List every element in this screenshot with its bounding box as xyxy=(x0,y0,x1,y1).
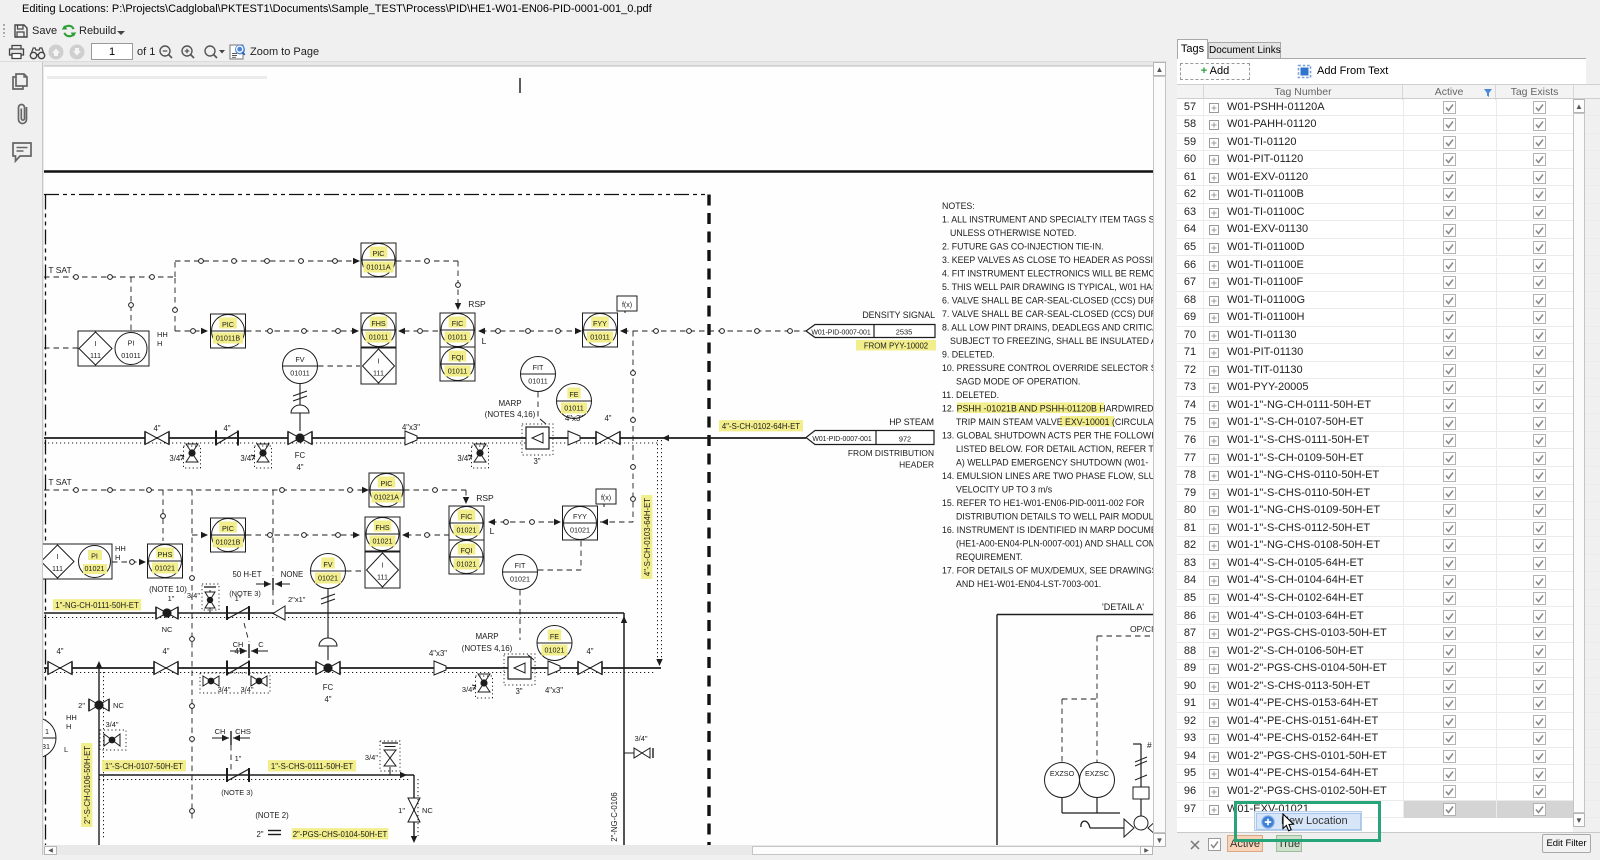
wire FIT-01021 down xyxy=(519,590,521,640)
svg-text:#: # xyxy=(1147,740,1152,750)
find icon (binoculars) xyxy=(29,45,46,60)
horizontal scrollbar of canvas xyxy=(44,846,1153,855)
svg-text:8. ALL LOW PINT DRAINS, DEADLE: 8. ALL LOW PINT DRAINS, DEADLEGS AND CRI… xyxy=(942,323,1153,333)
status bar xyxy=(1177,832,1600,855)
svg-text:FC: FC xyxy=(295,451,306,460)
MARP flow element box xyxy=(522,424,553,466)
svg-text:01021: 01021 xyxy=(457,560,477,569)
svg-text:FIC: FIC xyxy=(452,319,464,328)
svg-text:3": 3" xyxy=(533,457,540,466)
FV-01011 valve stem xyxy=(291,384,309,431)
zoom to page icon xyxy=(229,43,247,61)
svg-text:PHS: PHS xyxy=(158,550,173,559)
svg-text:T SAT: T SAT xyxy=(48,265,71,275)
svg-text:PIC: PIC xyxy=(222,524,234,533)
svg-text:SUBJECT TO FREEZING, SHALL BE: SUBJECT TO FREEZING, SHALL BE INSULATED … xyxy=(950,336,1153,346)
svg-text:2"x1": 2"x1" xyxy=(288,595,306,604)
svg-text:OP/CI: OP/CI xyxy=(1130,624,1153,634)
svg-text:f(x): f(x) xyxy=(601,495,611,502)
svg-text:111: 111 xyxy=(52,564,63,573)
svg-text:01011: 01011 xyxy=(290,369,309,378)
svg-text:PI: PI xyxy=(128,339,135,348)
svg-text:01011: 01011 xyxy=(121,351,140,360)
svg-text:FQI: FQI xyxy=(452,353,464,362)
svg-text:FROM DISTRIBUTION: FROM DISTRIBUTION xyxy=(848,448,934,458)
svg-text:4"-S-CH-0103-64H-ET: 4"-S-CH-0103-64H-ET xyxy=(643,498,652,576)
instrument PIC-01021B xyxy=(211,518,246,552)
svg-text:W01-PID-0007-001: W01-PID-0007-001 xyxy=(812,436,872,443)
svg-text:FHS: FHS xyxy=(375,523,390,532)
svg-text:01021B: 01021B xyxy=(216,538,241,547)
instrument FE-01021 xyxy=(537,626,572,661)
svg-text:NC: NC xyxy=(422,806,433,815)
svg-text:3/4": 3/4" xyxy=(217,685,230,694)
svg-text:2. FUTURE GAS CO-INJECTION TIE: 2. FUTURE GAS CO-INJECTION TIE-IN. xyxy=(942,242,1104,252)
svg-text:3/4": 3/4" xyxy=(169,454,183,463)
svg-text:C: C xyxy=(258,640,264,649)
reducer R3 xyxy=(434,661,446,675)
panel body xyxy=(1177,58,1586,832)
svg-text:01021: 01021 xyxy=(318,574,338,583)
svg-text:01011: 01011 xyxy=(448,367,467,376)
branch T xyxy=(98,668,100,845)
svg-text:FV: FV xyxy=(295,355,304,364)
pipe 4"-S-CH main line 2 xyxy=(44,667,661,669)
copy pages icon xyxy=(11,69,32,91)
svg-text:1. ALL INSTRUMENT AND SPECIALT: 1. ALL INSTRUMENT AND SPECIALTY ITEM TAG… xyxy=(942,215,1153,225)
pipe 4"-S-CH-0102 main line xyxy=(44,437,806,439)
instrument FQI-01021 xyxy=(449,540,484,574)
toolbar row 2 xyxy=(0,42,1600,62)
signal wire row B left xyxy=(175,330,204,332)
svg-text:01011: 01011 xyxy=(564,404,583,413)
function box f(x) 2 xyxy=(596,489,616,507)
svg-text:6. VALVE SHALL BE CAR-SEAL-CLO: 6. VALVE SHALL BE CAR-SEAL-CLOSED (CCS) … xyxy=(942,296,1153,306)
instrument PHS-01021 xyxy=(148,544,183,578)
svg-text:15. REFER TO HE1-W01-EN06-PID-: 15. REFER TO HE1-W01-EN06-PID-0011-002 F… xyxy=(942,498,1144,508)
minimize button xyxy=(1494,9,1507,11)
svg-text:DISTRIBUTION DETAILS TO WELL P: DISTRIBUTION DETAILS TO WELL PAIR MODULE xyxy=(956,512,1153,522)
svg-text:3/4": 3/4" xyxy=(105,720,118,729)
svg-text:1": 1" xyxy=(235,754,242,763)
reducer R2 xyxy=(568,431,580,445)
svg-text:3": 3" xyxy=(515,687,522,696)
svg-text:HH: HH xyxy=(157,330,168,339)
page number input xyxy=(91,43,133,60)
svg-text:1"-S-CH-0107-50H-ET: 1"-S-CH-0107-50H-ET xyxy=(105,762,183,771)
svg-text:4": 4" xyxy=(296,463,303,472)
toolbar row 1 xyxy=(0,20,1600,42)
Add From Text xyxy=(1297,64,1312,79)
wire FIC to FYY 2 xyxy=(488,519,495,525)
instrument FYY-01011 xyxy=(583,313,618,347)
svg-text:H: H xyxy=(157,339,162,348)
signal wire row A top xyxy=(175,260,357,262)
svg-text:FQI: FQI xyxy=(461,546,473,555)
instrument PIC-01011A xyxy=(361,243,396,277)
check valve CV1 xyxy=(216,431,238,446)
battery limit left border xyxy=(45,195,47,846)
vent valve 3/4 xyxy=(202,584,219,613)
svg-text:HH: HH xyxy=(115,544,126,553)
svg-text:01011: 01011 xyxy=(590,333,609,342)
svg-text:11. DELETED.: 11. DELETED. xyxy=(942,390,999,400)
tracing riser xyxy=(657,440,659,664)
wire FV2 to diamond xyxy=(346,570,364,572)
instrument FIT-01021 xyxy=(503,555,538,590)
svg-text:3/4": 3/4" xyxy=(187,591,200,600)
svg-text:TRIP MAIN STEAM VALVE EXV-1000: TRIP MAIN STEAM VALVE EXV-10001 (CIRCULA… xyxy=(956,417,1153,427)
caret mark xyxy=(519,78,521,93)
svg-text:REQUIREMENT.: REQUIREMENT. xyxy=(956,552,1022,562)
instrument FIC-01011 xyxy=(440,313,475,347)
svg-text:NC: NC xyxy=(162,625,173,634)
rebuild icon xyxy=(61,23,77,39)
wire dashed detail xyxy=(1097,635,1153,637)
svg-text:PIC: PIC xyxy=(373,249,385,258)
instrument FIT-01011 xyxy=(521,357,556,392)
svg-text:PIC: PIC xyxy=(222,320,234,329)
battery limit top border xyxy=(44,194,707,196)
FV-01021 valve stem xyxy=(319,589,337,660)
drain valve D4 xyxy=(472,674,493,698)
svg-text:EXZSO: EXZSO xyxy=(1050,769,1075,778)
svg-text:VELOCITY UP TO 3 m/s: VELOCITY UP TO 3 m/s xyxy=(956,485,1053,495)
left sidebar xyxy=(0,62,43,855)
svg-text:4": 4" xyxy=(234,647,241,656)
svg-text:2"-PGS-CHS-0104-50H-ET: 2"-PGS-CHS-0104-50H-ET xyxy=(293,830,388,839)
instrument FHS-01021 xyxy=(365,517,400,551)
trip signal heavy dashed line xyxy=(707,195,710,846)
nav down (disabled) xyxy=(69,44,85,60)
restore button xyxy=(1534,4,1548,18)
svg-text:4": 4" xyxy=(162,647,169,656)
svg-text:UNLESS OTHERWISE NOTED.: UNLESS OTHERWISE NOTED. xyxy=(950,228,1076,238)
reducer R4 xyxy=(548,661,560,675)
branch 3/4 valve xyxy=(100,730,126,750)
spec break NONE xyxy=(256,578,290,590)
pipe corner down xyxy=(623,613,625,845)
check valve CV4 xyxy=(227,661,249,676)
svg-text:CHS: CHS xyxy=(235,727,251,736)
svg-text:01011B: 01011B xyxy=(216,334,240,343)
svg-text:(NOTE 3): (NOTE 3) xyxy=(221,788,253,797)
wire FIC to FYY xyxy=(478,328,485,334)
svg-text:4"x3": 4"x3" xyxy=(429,649,447,658)
svg-text:PIC: PIC xyxy=(381,479,393,488)
wires below circles xyxy=(1061,798,1063,814)
svg-text:4": 4" xyxy=(56,647,63,656)
svg-text:f(x): f(x) xyxy=(622,302,632,309)
zoom out xyxy=(158,44,174,60)
svg-text:01021A: 01021A xyxy=(374,493,399,502)
long signal wire down xyxy=(191,490,193,820)
svg-text:16. INSTRUMENT IS IDENTIFIED I: 16. INSTRUMENT IS IDENTIFIED IN MARP DOC… xyxy=(942,525,1153,535)
function box f(x) 1 xyxy=(617,296,637,313)
branch 3/4 on riser xyxy=(624,748,653,758)
svg-text:NONE: NONE xyxy=(281,570,304,579)
svg-text:1: 1 xyxy=(45,727,49,736)
svg-text:FYY: FYY xyxy=(593,319,607,328)
svg-text:4": 4" xyxy=(223,424,230,433)
svg-text:PI: PI xyxy=(91,552,98,561)
tracing dots xyxy=(44,442,660,444)
instrument FV-01011 xyxy=(283,349,318,384)
arrow on line1 xyxy=(662,435,669,441)
svg-text:1"-NG-CH-0111-50H-ET: 1"-NG-CH-0111-50H-ET xyxy=(55,601,139,610)
svg-text:31: 31 xyxy=(42,742,50,751)
svg-text:FYY: FYY xyxy=(573,512,587,521)
drawing border thick line xyxy=(44,170,1153,173)
svg-text:01021: 01021 xyxy=(457,526,477,535)
svg-text:12. PSHH -01021B AND PSHH-0112: 12. PSHH -01021B AND PSHH-01120B HARDWIR… xyxy=(942,404,1153,414)
wire PI to PHS xyxy=(112,561,144,563)
svg-text:HEADER: HEADER xyxy=(899,460,934,470)
svg-text:1": 1" xyxy=(235,594,242,603)
MARP flow element box 2 xyxy=(504,654,535,696)
svg-text:MARP: MARP xyxy=(475,632,498,641)
wire corner up xyxy=(174,261,176,277)
signal wire row D xyxy=(44,489,366,491)
svg-text:01021: 01021 xyxy=(155,564,175,573)
svg-text:3/4": 3/4" xyxy=(457,454,471,463)
close button xyxy=(1575,4,1589,18)
svg-text:4": 4" xyxy=(153,424,160,433)
svg-text:EXZSC: EXZSC xyxy=(1085,769,1109,778)
interlock diamond I-111a xyxy=(361,348,396,384)
svg-text:10. PRESSURE CONTROL OVERRIDE: 10. PRESSURE CONTROL OVERRIDE SELECTOR S… xyxy=(942,363,1153,373)
svg-text:4"x3": 4"x3" xyxy=(545,686,563,695)
title bar xyxy=(0,0,1600,20)
drain pair xyxy=(200,673,270,693)
svg-text:01021: 01021 xyxy=(85,564,105,573)
label 4-S-CH-0102 xyxy=(719,420,803,431)
table scrollbar xyxy=(1573,99,1586,834)
svg-text:W01-PID-0007-001: W01-PID-0007-001 xyxy=(811,330,871,337)
drain valve D1 xyxy=(180,444,201,468)
instrument FQI-01011 xyxy=(440,347,475,381)
vertical scrollbar of canvas xyxy=(1153,62,1167,855)
svg-text:FC: FC xyxy=(323,683,334,692)
svg-text:01021: 01021 xyxy=(570,526,590,535)
svg-text:FIT: FIT xyxy=(515,561,526,570)
off-page flag HP STEAM xyxy=(806,417,934,470)
svg-text:01011: 01011 xyxy=(369,333,388,342)
Add button xyxy=(1180,63,1250,80)
svg-text:MARP: MARP xyxy=(498,399,521,408)
svg-text:I: I xyxy=(57,552,59,561)
svg-text:FHS: FHS xyxy=(371,319,386,328)
nav up (disabled) xyxy=(48,44,64,60)
instrument FHS-01011 xyxy=(361,313,396,347)
valve NC2 xyxy=(89,699,109,711)
svg-text:3/4": 3/4" xyxy=(240,454,254,463)
svg-text:'DETAIL A': 'DETAIL A' xyxy=(1102,602,1144,612)
svg-text:CH: CH xyxy=(215,727,226,736)
svg-text:DENSITY SIGNAL: DENSITY SIGNAL xyxy=(862,310,935,320)
wire PIC-01021B to FHS xyxy=(246,534,356,536)
right panel xyxy=(1167,0,1600,855)
check valve CV3 xyxy=(227,606,249,620)
valve V2 xyxy=(596,432,620,445)
mouse cursor xyxy=(1282,813,1296,833)
context menu popup xyxy=(1254,811,1362,831)
pipe 1"-S-CH-0107 xyxy=(99,774,414,776)
svg-text:14. EMULSION LINES ARE TWO PHA: 14. EMULSION LINES ARE TWO PHASE FLOW, S… xyxy=(942,471,1153,481)
svg-text:01021: 01021 xyxy=(510,575,530,584)
svg-text:H: H xyxy=(115,553,120,562)
svg-text:L: L xyxy=(64,745,68,754)
svg-text:(NOTE 2): (NOTE 2) xyxy=(255,811,289,820)
svg-text:01021: 01021 xyxy=(373,537,393,546)
wire from PIC-01011A to RSP xyxy=(396,260,458,262)
valve FCV-01011 xyxy=(288,432,312,445)
svg-text:5. THIS WELL PAIR DRAWING IS T: 5. THIS WELL PAIR DRAWING IS TYPICAL, W0… xyxy=(942,282,1153,292)
instrument FIC-01021 xyxy=(449,506,484,540)
zoom dropdown xyxy=(203,44,225,60)
svg-text:I: I xyxy=(95,339,97,348)
wire PIC-01021A to RSP xyxy=(404,489,466,491)
wire FV to diamond xyxy=(318,365,360,367)
print icon xyxy=(8,44,25,60)
save icon xyxy=(13,23,28,38)
instrument group I-111/PI-01021 xyxy=(40,544,112,579)
svg-text:111: 111 xyxy=(377,573,388,582)
svg-text:I: I xyxy=(382,561,384,570)
svg-text:FV: FV xyxy=(323,560,332,569)
interlock diamond I-111b xyxy=(365,552,400,588)
valve assembly right xyxy=(1081,740,1158,837)
svg-text:1": 1" xyxy=(398,806,405,815)
svg-text:1"-S-CHS-0111-50H-ET: 1"-S-CHS-0111-50H-ET xyxy=(271,762,353,771)
svg-text:01021: 01021 xyxy=(545,646,565,655)
svg-text:2"-NG-C-0106: 2"-NG-C-0106 xyxy=(610,792,619,842)
instrument PIC-01021A xyxy=(369,473,404,507)
instrument FYY-01021 xyxy=(563,506,598,540)
svg-text:1": 1" xyxy=(168,594,175,603)
svg-text:3/4": 3/4" xyxy=(462,685,475,694)
svg-text:4": 4" xyxy=(604,414,611,423)
svg-text:L: L xyxy=(490,526,495,536)
svg-text:SAGD MODE OF OPERATION.: SAGD MODE OF OPERATION. xyxy=(956,377,1080,387)
svg-text:2": 2" xyxy=(256,830,263,839)
pipe 1"-NG-CH-0111 xyxy=(44,612,624,614)
svg-text:(NOTES 4,16): (NOTES 4,16) xyxy=(462,644,513,653)
svg-text:3/4": 3/4" xyxy=(240,685,253,694)
spec break CH/C xyxy=(244,623,249,642)
svg-text:HH: HH xyxy=(66,713,77,722)
svg-text:HP STEAM: HP STEAM xyxy=(889,417,934,427)
svg-text:T SAT: T SAT xyxy=(48,477,71,487)
svg-text:4": 4" xyxy=(324,695,331,704)
wire FYY to density flag xyxy=(620,328,627,334)
paperclip icon xyxy=(15,102,30,127)
svg-text:4. FIT INSTRUMENT ELECTRONICS: 4. FIT INSTRUMENT ELECTRONICS WILL BE RE… xyxy=(942,269,1153,279)
signal wire row E left xyxy=(192,534,205,536)
green annotation box xyxy=(1234,801,1381,842)
drain valve D3 xyxy=(468,444,489,468)
wire FHS to FIC 2 xyxy=(402,532,409,538)
instrument FV-01021 xyxy=(311,554,346,589)
svg-text:01011: 01011 xyxy=(528,377,547,386)
svg-text:FROM PYY-10002: FROM PYY-10002 xyxy=(864,342,928,351)
svg-text:H: H xyxy=(66,722,71,731)
valve V4 xyxy=(154,662,178,675)
drain valve D2 xyxy=(251,444,272,468)
instrument FE-01011 xyxy=(557,384,592,419)
reducer R1 xyxy=(405,431,417,445)
wire break to line F xyxy=(272,590,274,608)
valve NC1 xyxy=(156,607,178,619)
valve V1 xyxy=(145,432,169,445)
svg-text:2": 2" xyxy=(78,701,85,710)
spec break CH/CHS xyxy=(212,727,251,745)
svg-text:(NOTES 4,16): (NOTES 4,16) xyxy=(485,410,536,419)
vent 3/4 valve line3 xyxy=(380,741,400,775)
valve V5 xyxy=(578,662,602,675)
tabs xyxy=(1177,39,1208,59)
signal wire row A xyxy=(44,276,175,278)
svg-text:NOTES:: NOTES: xyxy=(942,201,975,211)
wire PIC-01011B to FHS xyxy=(246,330,356,332)
svg-text:FIT: FIT xyxy=(533,363,544,372)
instrument EXZSC xyxy=(1080,763,1115,798)
svg-text:I: I xyxy=(378,357,380,366)
instrument group I-111/PI-01011 xyxy=(78,331,149,366)
junction to PHS xyxy=(162,490,164,541)
svg-text:LISTED BELOW. FOR DETAIL ACTIO: LISTED BELOW. FOR DETAIL ACTION, REFER T… xyxy=(956,444,1153,454)
comment icon xyxy=(11,141,33,163)
svg-text:NC: NC xyxy=(113,701,124,710)
wire FIT down xyxy=(537,392,539,420)
svg-text:972: 972 xyxy=(899,435,911,444)
drawing canvas xyxy=(0,62,1153,855)
svg-text:FE: FE xyxy=(550,632,559,641)
svg-text:4": 4" xyxy=(586,647,593,656)
NC valve vertical xyxy=(408,775,420,843)
valve FCV-01021 xyxy=(316,662,340,675)
table header xyxy=(1177,84,1600,99)
wire junction down to PI xyxy=(130,277,132,330)
branch wire down to FYY-01021 xyxy=(632,331,634,522)
svg-text:4"-S-CH-0102-64H-ET: 4"-S-CH-0102-64H-ET xyxy=(722,422,800,431)
svg-text:111: 111 xyxy=(373,369,384,378)
instrument EXZSO xyxy=(1045,763,1080,798)
svg-text:3/4": 3/4" xyxy=(365,753,378,762)
svg-text:A) WELLPAD EMERGENCY SHUTDOWN: A) WELLPAD EMERGENCY SHUTDOWN (W01- xyxy=(956,458,1148,468)
instrument partial PI-0131 xyxy=(16,718,56,758)
svg-text:RSP: RSP xyxy=(476,493,494,503)
svg-text:111: 111 xyxy=(90,351,101,360)
svg-text:(HE1-A00-EN04-PLN-0007-001) AN: (HE1-A00-EN04-PLN-0007-001) AND SHALL CO… xyxy=(956,539,1153,549)
svg-text:9. DELETED.: 9. DELETED. xyxy=(942,350,995,360)
check valve CV5 xyxy=(227,768,249,782)
svg-text:3/4": 3/4" xyxy=(634,734,647,743)
zoom in xyxy=(180,44,196,60)
svg-text:3. KEEP VALVES AS CLOSE TO HEA: 3. KEEP VALVES AS CLOSE TO HEADER AS POS… xyxy=(942,255,1153,265)
svg-text:FIC: FIC xyxy=(461,512,473,521)
notes text block xyxy=(942,201,1179,589)
svg-text:2535: 2535 xyxy=(896,328,912,337)
svg-text:L: L xyxy=(482,336,487,346)
svg-text:AND HE1-W01-EN04-LST-7003-001.: AND HE1-W01-EN04-LST-7003-001. xyxy=(956,579,1101,589)
junction NONE break xyxy=(272,490,274,576)
svg-text:7. VALVE SHALL BE CAR-SEAL-CLO: 7. VALVE SHALL BE CAR-SEAL-CLOSED (CCS) … xyxy=(942,309,1153,319)
detail A frame xyxy=(997,614,1153,616)
svg-text:RSP: RSP xyxy=(468,299,486,309)
wire into diamond xyxy=(44,347,78,349)
svg-text:(NOTE 10): (NOTE 10) xyxy=(149,585,187,594)
